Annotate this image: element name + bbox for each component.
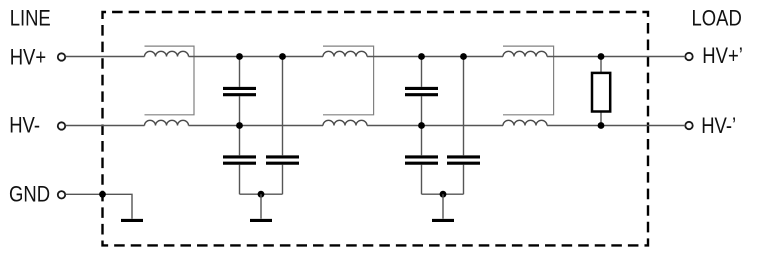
terminal circle HV-' load side	[685, 122, 692, 129]
node junction dot HV+ at CY4	[460, 53, 467, 60]
resistor R1 leads	[600, 57, 602, 126]
terminal circle GND line side	[58, 191, 65, 198]
terminal circle HV+ line side	[58, 53, 65, 60]
node junction dot HV- at R1	[598, 122, 605, 129]
Y capacitor CY2 (HV+ to ground) leads	[282, 57, 284, 195]
Y capacitor CY3 (HV- to ground) leads	[421, 126, 423, 195]
node junction dot ground bus group 1	[258, 191, 265, 198]
Y capacitor CY4 (HV+ to ground) leads	[463, 57, 465, 195]
dashed enclosure border	[103, 12, 649, 245]
node junction dot HV+ at CX1	[236, 53, 243, 60]
node junction dot HV+ at CX2	[418, 53, 425, 60]
wire HV+ choke L3 to output	[547, 56, 685, 58]
wire HV+ input to choke L1	[66, 56, 145, 58]
wire HV- choke L2 to choke L3	[367, 125, 503, 127]
svg-text:HV-: HV-	[9, 114, 40, 138]
ground symbol group 1	[260, 194, 262, 219]
wire ground bus group 1	[240, 193, 283, 195]
terminal circle HV- line side	[58, 122, 65, 129]
svg-text:HV+: HV+	[10, 46, 46, 70]
X capacitor CX1 plates	[223, 88, 256, 94]
wire HV+ choke L2 to choke L3	[367, 56, 503, 58]
node junction dot GND at enclosure	[99, 191, 106, 198]
resistor R1 body	[592, 73, 610, 112]
common-mode choke L1	[145, 46, 195, 125]
svg-text:HV-’: HV-’	[701, 115, 736, 139]
svg-text:LOAD: LOAD	[692, 7, 742, 31]
ground symbol group 2	[442, 194, 444, 219]
wire GND input	[66, 194, 132, 218]
wire HV+ choke L1 to choke L2	[189, 56, 324, 58]
Y capacitor CY1 (HV- to ground) leads	[239, 126, 241, 195]
wire HV- input to choke L1	[66, 125, 145, 127]
svg-text:HV+’: HV+’	[702, 45, 743, 69]
node junction dot HV+ at CY2	[279, 53, 286, 60]
wire ground bus group 2	[422, 193, 464, 195]
node junction dot HV- at CX1	[236, 122, 243, 129]
Y capacitor CY1 plates	[223, 157, 256, 163]
X capacitor CX2 plates	[405, 88, 438, 94]
Y capacitor CY2 plates	[266, 157, 299, 163]
node junction dot ground bus group 2	[440, 191, 447, 198]
X capacitor CX1 leads	[239, 57, 241, 126]
wire HV- choke L1 to choke L2	[189, 125, 324, 127]
wire HV- choke L3 to output	[547, 125, 685, 127]
node junction dot HV+ at R1	[598, 53, 605, 60]
Y capacitor CY3 plates	[405, 157, 438, 163]
ground symbol chassis	[121, 219, 143, 222]
svg-text:GND: GND	[9, 183, 50, 207]
common-mode choke L3	[503, 46, 554, 125]
Y capacitor CY4 plates	[447, 157, 480, 163]
X capacitor CX2 leads	[421, 57, 423, 126]
svg-text:LINE: LINE	[10, 7, 51, 31]
node junction dot HV- at CX2	[418, 122, 425, 129]
terminal circle HV+' load side	[685, 53, 692, 60]
common-mode choke L2	[323, 46, 374, 125]
